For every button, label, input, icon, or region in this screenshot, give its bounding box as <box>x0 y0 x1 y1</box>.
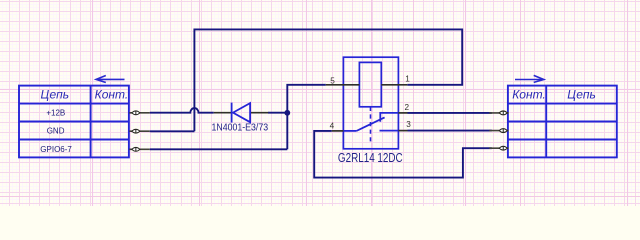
svg-text:3: 3 <box>406 120 411 129</box>
svg-text:G2RL14 12DC: G2RL14 12DC <box>338 150 403 165</box>
J2 pin 1 <box>489 111 508 115</box>
wire relay pin2 to J2 pin1 <box>408 112 492 114</box>
relay K1 switch common arm (pin 4 side) <box>343 117 384 131</box>
J1 pin 2 <box>129 129 150 133</box>
svg-text:Цепь: Цепь <box>567 88 596 102</box>
svg-text:2: 2 <box>405 103 410 112</box>
wire net riser x287 from GPIO wire up through junction to relay pin5 <box>287 85 326 150</box>
relay K1 pin 5 lead <box>326 84 360 86</box>
J1 pin 1 <box>129 111 150 115</box>
wire GPIO6-7 from J1 pin3 to riser at x287 <box>150 148 287 150</box>
svg-text:5: 5 <box>330 76 335 85</box>
svg-text:4: 4 <box>330 122 335 131</box>
connector table J2 (right) <box>508 86 617 158</box>
wire +12В from J1 pin1 to diode (with hop over GND riser) <box>150 108 214 113</box>
relay K1 mechanical link (dashed) <box>370 107 372 142</box>
J1 direction arrow (left) <box>96 76 124 83</box>
wire relay pin3 to J2 pin2 <box>408 130 492 132</box>
diode VD1 pin leads <box>214 112 269 114</box>
relay K1 pin 1 lead <box>381 84 407 86</box>
relay K1 pin 4 lead <box>332 130 344 132</box>
junction node at diode anode riser <box>284 110 290 116</box>
svg-text:Конт.: Конт. <box>95 88 129 102</box>
J1 pin 3 <box>129 147 150 151</box>
relay K1 NC contact (pin 3) <box>380 130 399 132</box>
relay K1 NO contact hook (pin 2) <box>380 113 398 122</box>
wire relay pin4 loop to J2 pin3 <box>314 131 492 178</box>
svg-text:GND: GND <box>47 127 65 136</box>
J2 pin 3 <box>489 146 508 150</box>
J2 pin 2 <box>489 129 508 133</box>
svg-text:Цепь: Цепь <box>41 88 70 102</box>
wire from diode anode to junction <box>268 112 287 114</box>
relay K1 pin 3 lead <box>398 130 407 132</box>
J2 direction arrow (right) <box>515 75 544 82</box>
wire GND from J1 pin2 to riser <box>150 130 195 132</box>
svg-text:GPIO6-7: GPIO6-7 <box>40 145 72 154</box>
svg-text:Конт.: Конт. <box>512 88 546 102</box>
relay K1 coil rectangle <box>359 62 381 106</box>
svg-text:+12В: +12В <box>46 108 65 117</box>
relay K1 pin 2 lead <box>398 112 407 114</box>
wire GND riser and top run to relay pin1 <box>194 29 462 131</box>
svg-text:1N4001-E3/73: 1N4001-E3/73 <box>212 122 269 133</box>
svg-text:1: 1 <box>405 75 410 84</box>
connector table J1 (left) <box>19 86 129 158</box>
relay K1 body outline <box>343 57 398 149</box>
diode VD1 symbol (cathode bar left, triangle) <box>232 103 251 123</box>
